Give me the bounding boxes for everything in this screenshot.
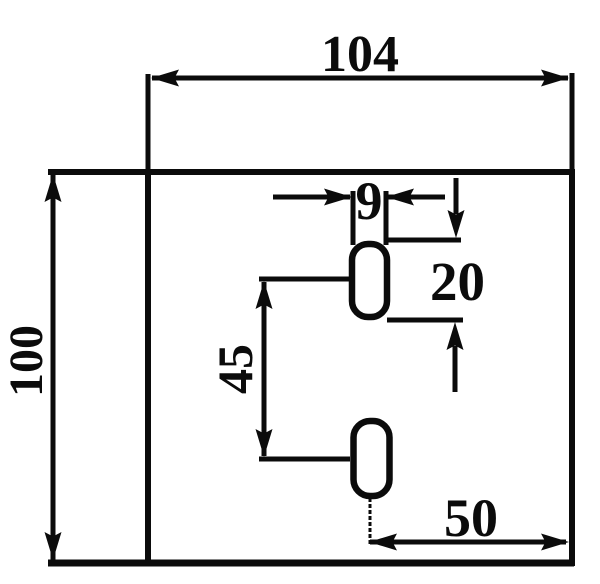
- dimension 20 (slot height, right): [385, 178, 485, 392]
- arrow pointing right at slot left: [324, 189, 352, 206]
- dimension line: [51, 174, 56, 560]
- plate outline: [48, 169, 574, 566]
- extension line right: [384, 191, 389, 245]
- arrow right: [541, 534, 569, 551]
- extension line from slot S2 bottom: [369, 498, 372, 546]
- dimension 100 (left): [0, 174, 62, 560]
- reference line bottom: [387, 318, 463, 323]
- arrow down with tail: [454, 178, 459, 214]
- slot S1 (upper): [352, 244, 387, 317]
- dimension 104 (top): [148, 26, 572, 169]
- dimension 50 (bottom): [369, 488, 569, 551]
- arrow down: [45, 532, 62, 560]
- arrow down: [256, 429, 273, 457]
- leader line left: [273, 195, 350, 200]
- dimension 45 (between slot centers): [207, 279, 350, 459]
- extension line left: [146, 74, 151, 169]
- svg-text:9: 9: [356, 171, 383, 231]
- arrow up with tail: [453, 346, 458, 392]
- leader line right: [388, 195, 445, 200]
- dimension 9 (slot width): [273, 171, 445, 245]
- plate left edge: [145, 169, 151, 563]
- arrow left: [151, 70, 179, 87]
- reference line upper (to slot S1 centerline): [259, 277, 350, 282]
- extension line right: [570, 73, 575, 169]
- arrow right: [541, 70, 569, 87]
- dimension line: [370, 540, 566, 545]
- svg-text:50: 50: [444, 488, 498, 548]
- dimension line: [262, 282, 267, 456]
- arrow pointing left at slot right: [386, 189, 414, 206]
- svg-text:20: 20: [430, 251, 485, 312]
- svg-text:100: 100: [0, 325, 53, 397]
- reference line top: [385, 238, 461, 243]
- arrow left: [369, 534, 397, 551]
- arrow up: [256, 281, 273, 309]
- dimension line: [152, 76, 568, 81]
- svg-text:45: 45: [207, 344, 263, 394]
- plate bottom edge: [48, 560, 574, 567]
- reference line lower (to slot S2 centerline): [259, 457, 350, 462]
- plate top edge: [48, 169, 574, 175]
- extension line left: [351, 191, 356, 245]
- plate right edge: [569, 169, 575, 566]
- arrow up: [45, 174, 62, 202]
- slot S2 (lower): [354, 421, 390, 496]
- svg-text:104: 104: [321, 26, 399, 83]
